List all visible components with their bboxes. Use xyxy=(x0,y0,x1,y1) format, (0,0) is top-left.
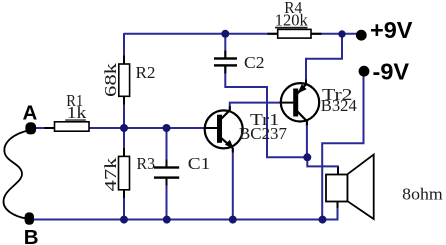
svg-text:-9V: -9V xyxy=(373,58,410,84)
junction dot C1 bottom rail node xyxy=(163,216,171,224)
junction dot C1 top node xyxy=(163,124,171,132)
svg-text:68k: 68k xyxy=(101,62,120,97)
speaker LS body box xyxy=(326,175,348,202)
wire -9V line down to bottom rail xyxy=(322,76,363,220)
svg-text:47k: 47k xyxy=(101,157,120,192)
resistor R4 label underline xyxy=(275,27,308,29)
transistor Tr2 collector pin stub xyxy=(306,121,308,126)
speaker bottom pin stub xyxy=(337,202,339,209)
resistor R1 label underline xyxy=(65,119,86,120)
svg-text:+9V: +9V xyxy=(370,17,413,43)
wire +9V branch to Tr2 emitter xyxy=(306,34,342,84)
wire top rail +9V row xyxy=(124,33,360,35)
resistor R4 body xyxy=(278,29,311,38)
junction dot speaker bottom rail node xyxy=(319,216,327,224)
svg-text:B324: B324 xyxy=(321,96,357,115)
wire R3 top vertical xyxy=(123,128,125,157)
transistor Tr2 emitter arrow xyxy=(297,84,306,94)
transistor Tr2 base bar xyxy=(293,89,298,117)
resistor R4 left pin stub xyxy=(268,33,279,35)
capacitor C1 bottom pin stub xyxy=(166,178,168,186)
transistor Tr1 collector pin stub xyxy=(229,106,231,111)
transistor Tr1 base bar xyxy=(217,115,222,143)
junction dot Tr2 collector output node xyxy=(303,153,311,161)
node B terminal pad xyxy=(25,212,34,224)
capacitor C2 bottom pin stub xyxy=(224,66,226,74)
svg-text:1k: 1k xyxy=(67,103,87,122)
transistor Tr1 collector lead xyxy=(221,110,231,120)
transistor Q1 Tr1 body circle xyxy=(205,110,243,148)
junction dot C2 top rail node xyxy=(221,30,229,38)
capacitor C1 top pin stub xyxy=(166,160,168,168)
capacitor C1 top plate xyxy=(154,166,179,168)
transistor Tr2 collector lead bottom xyxy=(297,111,308,122)
transistor Tr2 emitter lead top xyxy=(297,84,307,95)
wire junction to speaker top xyxy=(307,157,338,175)
wire C1 top vertical xyxy=(166,128,168,167)
power terminal +9V pad xyxy=(356,30,367,41)
transistor Tr1 emitter arrow xyxy=(225,140,234,149)
svg-text:B: B xyxy=(24,226,39,245)
wire R2 bottom to signal rail xyxy=(123,96,125,128)
resistor R3 top pin stub xyxy=(123,148,125,157)
capacitor C2 bottom plate xyxy=(214,64,237,66)
svg-text:120k: 120k xyxy=(275,11,308,30)
svg-text:A: A xyxy=(23,102,38,125)
speaker LS horn xyxy=(348,155,374,220)
resistor R3 body xyxy=(119,156,130,189)
capacitor C2 top pin stub xyxy=(224,51,226,59)
transistor Tr2 emitter pin stub xyxy=(305,80,307,85)
svg-text:BC237: BC237 xyxy=(239,124,287,143)
junction dot Tr1 emitter rail node xyxy=(229,216,237,224)
wire Tr1 collector up to Tr2 base xyxy=(230,103,294,111)
svg-text:C1: C1 xyxy=(188,154,211,173)
svg-text:8ohm: 8ohm xyxy=(402,185,443,204)
resistor R2 bottom pin stub xyxy=(123,96,125,105)
wire input squiggle A to B xyxy=(3,130,30,219)
transistor Q2 Tr2 body circle xyxy=(281,83,319,121)
wire Tr2 collector to junction xyxy=(306,121,308,157)
junction dot R2/R1 signal node xyxy=(120,124,128,132)
transistor Tr1 base lead xyxy=(204,127,218,129)
transistor Tr1 emitter pin stub xyxy=(232,148,234,153)
svg-text:C2: C2 xyxy=(244,53,265,72)
wire C1 bottom vertical xyxy=(166,178,168,220)
svg-text:R2: R2 xyxy=(136,63,156,82)
resistor R1 body xyxy=(55,122,90,131)
wire C2 top vertical xyxy=(224,34,226,58)
capacitor C2 top plate xyxy=(214,57,237,59)
resistor R2 body xyxy=(119,64,130,96)
wire C2 bottom to Tr2 collector junction xyxy=(225,66,306,157)
resistor R2 top pin stub xyxy=(123,56,125,65)
wire R2 top vertical xyxy=(123,33,125,65)
resistor R1 left pin stub xyxy=(45,127,56,129)
junction dot +9V rail node xyxy=(338,30,345,37)
transistor Tr2 base lead xyxy=(280,102,294,104)
resistor R4 right pin stub xyxy=(311,33,322,35)
transistor Tr1 emitter lead xyxy=(221,138,233,149)
node A terminal pad xyxy=(25,122,36,134)
wire R3 bottom vertical xyxy=(123,190,125,220)
wire Tr1 emitter down to bottom rail xyxy=(232,148,234,220)
junction dot R3 bottom rail node xyxy=(120,216,128,224)
capacitor C1 bottom plate xyxy=(154,176,179,178)
wire bottom rail xyxy=(29,202,338,220)
power terminal -9V pad xyxy=(359,66,370,77)
wire signal rail A to Tr1 base xyxy=(31,127,218,129)
svg-text:R3: R3 xyxy=(137,154,156,173)
speaker top pin stub xyxy=(337,167,339,175)
resistor R3 bottom pin stub xyxy=(123,190,125,199)
